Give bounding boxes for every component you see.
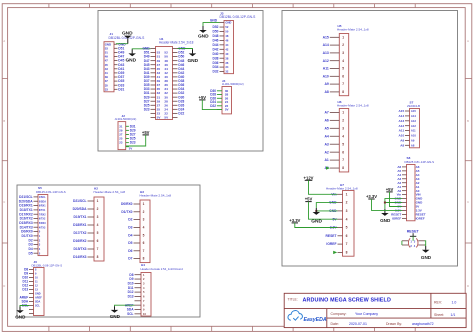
- svg-text:+3.3V: +3.3V: [289, 218, 300, 223]
- svg-text:ARDUINO MEGA SCREW SHIELD: ARDUINO MEGA SCREW SHIELD: [303, 297, 391, 303]
- connector S7 292304-B: [399, 101, 421, 148]
- ground GND-A above J1: [122, 31, 133, 44]
- svg-text:D15/TX3: D15/TX3: [73, 247, 86, 251]
- svg-text:+5V: +5V: [386, 187, 394, 192]
- svg-text:1/SCL: 1/SCL: [39, 196, 46, 199]
- svg-text:5: 5: [342, 142, 344, 146]
- ground GND-B below J1 label: [125, 49, 136, 63]
- svg-text:D: D: [467, 284, 469, 288]
- svg-text:IOREF: IOREF: [326, 242, 336, 246]
- wire SW1 left pins joined: [401, 241, 403, 245]
- header H7 Header-Mate 2.54_1x8 power pins: [326, 183, 358, 256]
- svg-text:EasyEDA: EasyEDA: [304, 317, 327, 323]
- frame zone ticks bottom: [49, 326, 415, 331]
- svg-text:D31: D31: [118, 87, 124, 91]
- svg-text:D22: D22: [178, 111, 184, 115]
- svg-text:D34: D34: [212, 65, 218, 69]
- svg-text:GND: GND: [187, 58, 198, 64]
- svg-text:REV:: REV:: [434, 300, 442, 304]
- svg-text:32: 32: [225, 70, 228, 74]
- svg-text:A12: A12: [323, 59, 329, 63]
- svg-text:A11: A11: [323, 67, 329, 71]
- frame zone ticks left: [2, 78, 7, 243]
- svg-text:JL301-50000(U2): JL301-50000(U2): [222, 82, 244, 86]
- module box right (analog + power): [282, 11, 458, 267]
- svg-text:2: 2: [342, 118, 344, 122]
- wire J3 GND pin to GND-D: [203, 23, 220, 26]
- svg-text:A12: A12: [411, 124, 416, 128]
- svg-text:A9: A9: [324, 82, 328, 86]
- svg-text:A9: A9: [411, 139, 415, 143]
- svg-text:3: 3: [346, 209, 348, 213]
- svg-text:A8: A8: [411, 143, 415, 147]
- svg-text:DB125 0.81-14P-GN-S: DB125 0.81-14P-GN-S: [405, 160, 435, 164]
- svg-text:Drawn By:: Drawn By:: [386, 322, 402, 326]
- svg-text:48: 48: [225, 34, 228, 38]
- svg-text:40: 40: [225, 52, 228, 56]
- power +5V-C for H7: [305, 197, 313, 202]
- svg-text:D22: D22: [210, 104, 216, 108]
- wire GND-A to J1 pin 1: [116, 43, 128, 45]
- svg-text:5: 5: [346, 226, 348, 230]
- svg-text:A: A: [467, 39, 469, 43]
- svg-text:5V: 5V: [129, 147, 133, 151]
- svg-text:TITLE:: TITLE:: [288, 298, 298, 302]
- svg-text:GND: GND: [15, 315, 26, 320]
- svg-text:4: 4: [346, 217, 348, 221]
- svg-text:6: 6: [143, 241, 145, 245]
- wire +3.3V-B to S8 3.3V pin: [372, 199, 403, 210]
- svg-text:GND: GND: [380, 218, 391, 223]
- svg-text:D46: D46: [212, 39, 218, 43]
- svg-text:7: 7: [342, 82, 344, 86]
- svg-text:A10: A10: [411, 134, 416, 138]
- svg-text:A14: A14: [399, 114, 405, 118]
- svg-text:1: 1: [143, 202, 145, 206]
- svg-text:DB125-0.81-14P-GN-S: DB125-0.81-14P-GN-S: [36, 190, 66, 194]
- svg-text:D52: D52: [212, 25, 218, 29]
- svg-text:D42: D42: [212, 47, 218, 51]
- svg-text:Your Company: Your Company: [355, 312, 378, 316]
- junction dot S8 GND net: [384, 202, 386, 204]
- svg-text:D5: D5: [128, 241, 132, 245]
- drawn-by field: [386, 322, 434, 326]
- wire stub H7 pin 8: [333, 251, 337, 254]
- svg-text:Header-Mate 2.54_1x8: Header-Mate 2.54_1x8: [337, 104, 369, 108]
- svg-text:4/TX3: 4/TX3: [39, 226, 46, 229]
- svg-text:D23: D23: [144, 107, 150, 111]
- svg-text:A13: A13: [323, 51, 329, 55]
- svg-text:7: 7: [97, 247, 99, 251]
- title text: [288, 297, 391, 303]
- svg-text:A4: A4: [324, 134, 328, 138]
- wire stub H6 pin 8: [326, 166, 330, 169]
- svg-text:D5: D5: [28, 251, 32, 255]
- push button SW1 reset switch: [402, 238, 425, 247]
- svg-text:52: 52: [225, 25, 228, 29]
- svg-text:+12V: +12V: [304, 175, 314, 180]
- wire SW1 right pins to GND-I: [425, 241, 426, 246]
- svg-text:Header-Mate 2.54_2x18: Header-Mate 2.54_2x18: [159, 40, 194, 44]
- svg-text:A7: A7: [324, 111, 328, 115]
- svg-text:A8: A8: [400, 143, 404, 147]
- svg-text:A11: A11: [399, 129, 405, 133]
- frame zone ticks top: [49, 4, 415, 8]
- svg-text:0/SDA: 0/SDA: [39, 200, 46, 203]
- ground GND-E below J6: [15, 307, 26, 320]
- svg-text:GND: GND: [311, 219, 322, 225]
- svg-text:IOREF: IOREF: [416, 216, 425, 220]
- wire +5V-A to J4 pin 6: [202, 100, 222, 110]
- ground GND-F below H4: [110, 306, 121, 319]
- svg-text:+5V: +5V: [305, 197, 313, 202]
- connector J6 DB12BL-0.08-12P-GN-S screw terminal: [20, 260, 63, 316]
- header H2 Header-Mate 2.54_1x8: [73, 186, 126, 261]
- svg-text:8: 8: [143, 257, 145, 261]
- svg-text:44: 44: [225, 43, 228, 47]
- svg-text:7/RX2: 7/RX2: [39, 213, 46, 216]
- svg-text:D44: D44: [212, 43, 218, 47]
- svg-text:5: 5: [97, 231, 99, 235]
- svg-text:7: 7: [143, 249, 145, 253]
- svg-text:D16/RX2: D16/RX2: [73, 239, 87, 243]
- svg-text:8: 8: [342, 90, 344, 94]
- svg-text:D3: D3: [128, 226, 132, 230]
- wire S8 GND pins to GND-H: [385, 199, 402, 209]
- svg-text:7: 7: [342, 158, 344, 162]
- wire H1 GND pin to GND-B: [132, 48, 150, 51]
- svg-text:SDA: SDA: [35, 301, 40, 304]
- svg-text:8: 8: [346, 251, 348, 255]
- ground GND-I below SW1: [421, 246, 432, 260]
- svg-text:D23: D23: [130, 141, 136, 145]
- ground GND-D left of J3: [198, 26, 209, 40]
- svg-text:38: 38: [225, 56, 228, 60]
- svg-text:D18/RX1: D18/RX1: [73, 223, 87, 227]
- svg-text:+5V: +5V: [142, 130, 150, 135]
- svg-text:Header-Mate 2.54_1x8: Header-Mate 2.54_1x8: [326, 187, 358, 191]
- svg-text:Sheet:: Sheet:: [434, 313, 444, 317]
- svg-text:8/TX1: 8/TX1: [39, 209, 46, 212]
- svg-text:Header-Mate 2.54_1x8: Header-Mate 2.54_1x8: [337, 28, 369, 32]
- title block frame: [284, 293, 466, 327]
- ground GND-C right of H1: [187, 49, 198, 64]
- svg-text:SCL: SCL: [127, 312, 133, 316]
- date field: [331, 322, 367, 326]
- connector S5 DB125-0.81-14P-GN-S screw terminal: [19, 186, 66, 256]
- svg-text:SCL: SCL: [35, 305, 40, 308]
- S8 right side net names: [416, 165, 426, 220]
- svg-text:3: 3: [342, 126, 344, 130]
- svg-text:50: 50: [225, 30, 228, 34]
- svg-text:3: 3: [342, 51, 344, 55]
- svg-text:4: 4: [342, 59, 344, 63]
- svg-text:GND: GND: [421, 255, 432, 260]
- svg-text:3: 3: [143, 218, 145, 222]
- svg-text:D1/TX0: D1/TX0: [121, 210, 132, 214]
- module box bottom-left (communication + pwm): [17, 185, 200, 317]
- wire H7 GND pins to GND-G: [316, 203, 337, 208]
- svg-text:6: 6: [342, 74, 344, 78]
- svg-text:5: 5: [143, 233, 145, 237]
- svg-text:D6: D6: [128, 249, 132, 253]
- svg-text:A12: A12: [399, 124, 405, 128]
- svg-text:D14/RX3: D14/RX3: [73, 255, 87, 259]
- svg-text:+3.3V: +3.3V: [366, 194, 377, 199]
- svg-text:33: 33: [105, 87, 109, 91]
- wire +12V to H7 pin 1 Vin: [309, 180, 338, 194]
- junction dot H7 GND net: [315, 210, 317, 212]
- connector J1 DB12BL 0.08-12P-GN-S screw terminal: [104, 32, 145, 92]
- power +12V for H7: [304, 175, 314, 180]
- svg-text:6: 6: [346, 234, 348, 238]
- svg-text:A1: A1: [324, 158, 328, 162]
- ground GND-G below H7 GND pins: [311, 208, 322, 225]
- EasyEDA logo: [288, 311, 327, 323]
- connector S8 DB125 0.81-14P-GN-S: [391, 156, 434, 221]
- header H5 Header-Mate 2.54_1x8 analog A8-A15: [323, 24, 369, 96]
- connector J3 DB12BL 0.08-12P-GN-S screw terminal: [212, 11, 256, 73]
- svg-text:2: 2: [97, 207, 99, 211]
- svg-text:3: 3: [97, 215, 99, 219]
- svg-text:D21/SCL: D21/SCL: [73, 199, 87, 203]
- svg-text:2: 2: [143, 210, 145, 214]
- svg-text:DB12BL 0.08-12P-GN-S: DB12BL 0.08-12P-GN-S: [220, 15, 257, 19]
- svg-text:A15: A15: [411, 109, 416, 113]
- svg-text:A3: A3: [324, 142, 328, 146]
- svg-text:8: 8: [342, 166, 344, 170]
- wire H4 GND pin to GND-F: [115, 305, 135, 306]
- J1 pin names inside body: [105, 42, 111, 91]
- svg-text:GND: GND: [125, 58, 136, 64]
- ground GND-H left of S8: [380, 209, 391, 223]
- svg-text:IOREF: IOREF: [392, 216, 401, 220]
- module box top (digital pins 22-53): [98, 11, 263, 152]
- svg-text:D19/TX1: D19/TX1: [73, 215, 86, 219]
- svg-text:D32: D32: [212, 70, 218, 74]
- wire J6 GND pin to GND-E: [20, 306, 29, 307]
- svg-text:2: 2: [342, 43, 344, 47]
- svg-text:34: 34: [225, 65, 228, 69]
- svg-text:A13: A13: [399, 119, 405, 123]
- svg-text:5/RX3: 5/RX3: [39, 222, 46, 225]
- svg-text:D50: D50: [212, 30, 218, 34]
- svg-text:Company:: Company:: [331, 312, 347, 316]
- svg-text:1: 1: [342, 35, 344, 39]
- svg-text:Header-Female 2.54_1x10 Round: Header-Female 2.54_1x10 Round: [141, 267, 184, 271]
- connector J4 JL301-50000 screw terminal: [210, 79, 243, 114]
- svg-text:A14: A14: [323, 43, 329, 47]
- power +3.3V-B for S8: [366, 194, 377, 199]
- svg-text:D38: D38: [212, 56, 218, 60]
- frame zone labels: [3, 39, 469, 288]
- svg-text:D13: D13: [22, 288, 28, 292]
- svg-text:A13: A13: [411, 119, 416, 123]
- wire H1 top-right GND to GND-C: [178, 48, 193, 51]
- svg-text:6: 6: [97, 239, 99, 243]
- svg-text:D17/TX2: D17/TX2: [73, 231, 86, 235]
- svg-text:A15: A15: [399, 109, 405, 113]
- wire RESET to switch SW1: [412, 236, 414, 241]
- svg-text:B: B: [467, 119, 469, 123]
- svg-text:A8: A8: [324, 90, 328, 94]
- svg-text:D40: D40: [212, 52, 218, 56]
- svg-text:5V: 5V: [225, 108, 229, 112]
- svg-text:2020-07-01: 2020-07-01: [349, 322, 367, 326]
- svg-text:A6: A6: [324, 118, 328, 122]
- svg-text:D13: D13: [128, 295, 134, 299]
- svg-text:1: 1: [346, 192, 348, 196]
- wire +3.3V-A to H7 pin 5: [295, 223, 338, 228]
- net flag RESET tee: [410, 233, 416, 236]
- svg-text:1: 1: [97, 199, 99, 203]
- svg-text:23: 23: [119, 141, 123, 145]
- sheet field: [434, 313, 455, 317]
- svg-text:AREF: AREF: [35, 297, 42, 300]
- wire +5V-D to S8 5V pin: [390, 192, 403, 207]
- svg-text:8: 8: [97, 255, 99, 259]
- svg-text:Header-Mate 2.54_1x8: Header-Mate 2.54_1x8: [140, 193, 172, 197]
- svg-text:D0/RX0: D0/RX0: [121, 202, 133, 206]
- svg-text:D: D: [3, 284, 5, 288]
- svg-text:1.0: 1.0: [452, 300, 457, 304]
- svg-text:GND: GND: [210, 19, 218, 23]
- svg-text:GND: GND: [198, 34, 209, 40]
- frame zone ticks right: [465, 78, 472, 243]
- svg-text:Header-Mate 2.54_1x8: Header-Mate 2.54_1x8: [94, 190, 126, 194]
- wire +5V-C to H7 pin 4: [309, 202, 338, 220]
- svg-text:5: 5: [342, 67, 344, 71]
- svg-text:D4: D4: [128, 233, 132, 237]
- power +5V-A for J4: [199, 95, 207, 100]
- svg-text:A11: A11: [411, 129, 416, 133]
- svg-text:A15: A15: [323, 35, 329, 39]
- svg-text:D2: D2: [128, 218, 132, 222]
- svg-text:A10: A10: [323, 74, 329, 78]
- svg-text:292304-B: 292304-B: [407, 104, 420, 108]
- svg-text:42: 42: [225, 47, 228, 51]
- connector J2 JL301-50000 screw terminal: [115, 114, 137, 150]
- svg-text:D7: D7: [128, 257, 132, 261]
- svg-text:Date:: Date:: [331, 322, 339, 326]
- svg-text:+5V: +5V: [199, 95, 207, 100]
- svg-text:C: C: [467, 200, 469, 204]
- svg-text:A10: A10: [399, 134, 405, 138]
- svg-text:RESET: RESET: [407, 229, 420, 233]
- svg-text:JL301-50000(U2): JL301-50000(U2): [115, 117, 137, 121]
- svg-text:GND: GND: [35, 293, 41, 296]
- svg-text:4: 4: [342, 134, 344, 138]
- svg-text:9/RX1: 9/RX1: [39, 205, 46, 208]
- header H4 Header-Female 2.54_1x10: [125, 263, 183, 316]
- svg-text:A5: A5: [324, 126, 328, 130]
- svg-text:1/1: 1/1: [451, 313, 456, 317]
- svg-text:A14: A14: [411, 114, 416, 118]
- rev field: [434, 300, 456, 304]
- svg-text:D36: D36: [212, 61, 218, 65]
- svg-text:6/TX2: 6/TX2: [39, 218, 46, 221]
- header H1 Header-Mate 2.54_2x18: [143, 37, 194, 120]
- svg-text:7: 7: [346, 242, 348, 246]
- svg-text:D20/SDA: D20/SDA: [73, 207, 88, 211]
- header H6 Header-Mate 2.54_1x8 analog A0-A7: [324, 100, 368, 172]
- svg-text:D48: D48: [212, 34, 218, 38]
- svg-text:6: 6: [342, 150, 344, 154]
- svg-text:C: C: [3, 200, 5, 204]
- svg-text:DB12BL-0.08-12P-GN-S: DB12BL-0.08-12P-GN-S: [32, 263, 63, 267]
- svg-text:4: 4: [143, 226, 145, 230]
- svg-text:RESET: RESET: [326, 234, 337, 238]
- svg-text:GND: GND: [225, 21, 231, 25]
- svg-text:A: A: [3, 39, 5, 43]
- company field: [331, 312, 379, 316]
- svg-text:araghunath72: araghunath72: [412, 322, 434, 326]
- svg-text:A9: A9: [400, 139, 404, 143]
- power +5V-B for J2: [142, 130, 150, 135]
- power +5V-D for S8: [386, 187, 394, 192]
- svg-text:36: 36: [225, 61, 228, 65]
- power +3.3V-A for H7: [289, 218, 300, 223]
- svg-text:2: 2: [346, 201, 348, 205]
- header H3 Header-Mate 2.54_1x8: [121, 190, 171, 263]
- svg-text:A2: A2: [324, 150, 328, 154]
- svg-text:1: 1: [342, 111, 344, 115]
- svg-text:GND: GND: [110, 314, 121, 319]
- wire +5V-B to J2 pin 6: [126, 135, 146, 146]
- svg-text:B: B: [3, 119, 5, 123]
- svg-text:46: 46: [225, 39, 228, 43]
- svg-text:4: 4: [97, 223, 99, 227]
